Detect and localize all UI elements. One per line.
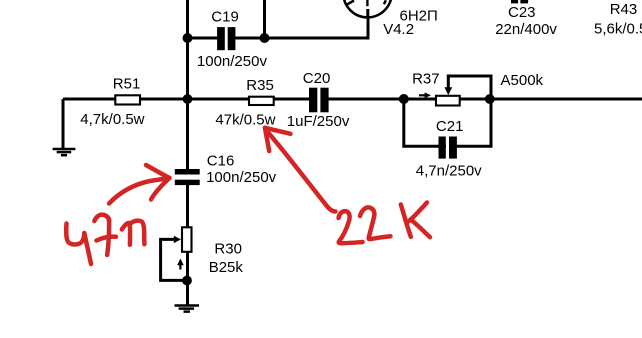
svg-text:4,7n/250v: 4,7n/250v [416, 163, 482, 180]
svg-text:R37: R37 [412, 71, 440, 88]
svg-text:4,7k/0.5w: 4,7k/0.5w [80, 111, 144, 128]
svg-text:A500k: A500k [501, 72, 544, 89]
svg-text:B25k: B25k [209, 259, 244, 276]
svg-text:5,6k/0.5w: 5,6k/0.5w [594, 21, 642, 38]
svg-text:R35: R35 [246, 77, 274, 94]
svg-text:R30: R30 [214, 240, 242, 257]
svg-text:C19: C19 [211, 8, 239, 25]
svg-text:47k/0.5w: 47k/0.5w [215, 111, 275, 128]
svg-text:R43: R43 [610, 1, 638, 18]
svg-text:22n/400v: 22n/400v [495, 21, 557, 38]
svg-text:V4.2: V4.2 [383, 21, 414, 38]
svg-text:C23: C23 [508, 4, 536, 21]
svg-text:R51: R51 [113, 75, 141, 92]
svg-text:1uF/250v: 1uF/250v [287, 113, 350, 130]
svg-text:100n/250v: 100n/250v [197, 53, 268, 70]
svg-text:C21: C21 [436, 118, 464, 135]
svg-text:100n/250v: 100n/250v [206, 169, 277, 186]
svg-text:C20: C20 [303, 70, 331, 87]
svg-text:C16: C16 [207, 152, 235, 169]
